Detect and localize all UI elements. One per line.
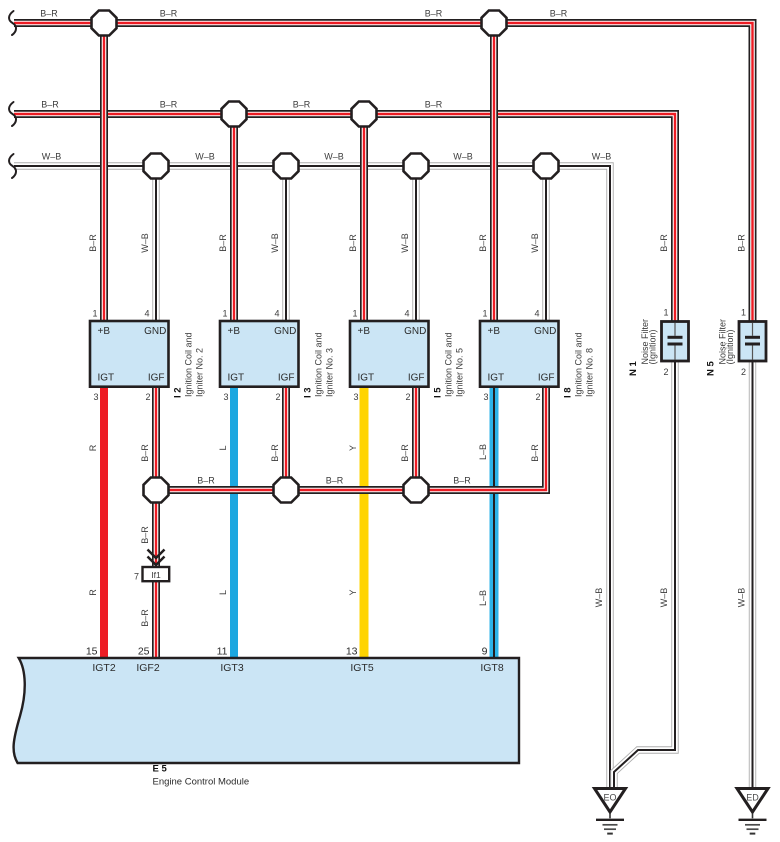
svg-text:W–B: W–B [592,152,612,162]
svg-text:Igniter No. 8: Igniter No. 8 [585,348,595,397]
svg-text:W–B: W–B [737,588,747,608]
wire L-B from I8 IGT to ECM pin 9 [490,387,499,658]
junction on second B-R bus above I3 [222,102,247,127]
svg-text:B–R: B–R [326,476,344,486]
svg-text:B–R: B–R [41,100,59,110]
svg-text:25: 25 [138,646,150,658]
noise filter N1 box [662,322,689,362]
wire B-R from junction to I8 +B [490,23,498,321]
wire B-R from I5 IGF to junction [412,387,420,490]
svg-text:1: 1 [741,308,746,318]
svg-text:W–B: W–B [453,152,473,162]
svg-text:Y: Y [348,445,358,451]
svg-text:+B: +B [488,326,501,337]
svg-text:B–R: B–R [40,9,58,19]
svg-text:IGT3: IGT3 [220,662,243,674]
junction on top B-R bus above I8 [482,11,507,36]
capacitor symbol inside N 5 [745,323,760,360]
svg-text:Igniter No. 5: Igniter No. 5 [455,348,465,397]
svg-text:IGT: IGT [228,373,245,384]
svg-text:9: 9 [482,646,488,658]
svg-text:2: 2 [663,367,668,377]
svg-text:+B: +B [228,326,241,337]
svg-text:I 8: I 8 [563,387,574,398]
svg-text:2: 2 [741,367,746,377]
svg-text:B–R: B–R [550,9,568,19]
wire bus W-B ground with corner down to ground EO [14,166,610,788]
svg-text:3: 3 [353,392,358,402]
ground EO triangle [595,789,626,813]
svg-text:3: 3 [223,392,228,402]
svg-text:IGF: IGF [278,373,295,384]
svg-text:E 5: E 5 [153,764,168,775]
svg-text:2: 2 [145,392,150,402]
junction on second B-R bus above I5 [352,102,377,127]
svg-text:IGT8: IGT8 [480,662,503,674]
svg-text:W–B: W–B [195,152,215,162]
svg-text:W–B: W–B [324,152,344,162]
svg-text:+B: +B [98,326,111,337]
svg-text:W–B: W–B [270,233,280,253]
svg-text:Y: Y [348,589,358,595]
svg-text:3: 3 [483,392,488,402]
wire B-R from junction to I2 +B [100,23,108,321]
svg-text:IGT5: IGT5 [350,662,373,674]
wire W-B from junction to I5 GND [412,166,419,321]
svg-text:GND: GND [534,326,556,337]
ignition coil and igniter I5 box [350,321,429,387]
svg-text:(Ignition): (Ignition) [648,329,658,364]
svg-text:L–B: L–B [478,444,488,460]
svg-text:If1: If1 [151,570,161,580]
svg-text:2: 2 [535,392,540,402]
svg-text:13: 13 [346,646,358,658]
torn end of top B-R bus [9,11,16,35]
svg-text:B–R: B–R [270,444,280,462]
svg-text:1: 1 [663,308,668,318]
svg-text:B–R: B–R [140,609,150,627]
capacitor symbol inside N 1 [668,323,683,360]
wire B-R from I3 IGF to junction [282,387,290,490]
svg-text:I 2: I 2 [173,387,184,398]
ignition coil and igniter I8 box [480,321,559,387]
svg-text:B–R: B–R [453,476,471,486]
svg-text:W–B: W–B [42,152,62,162]
svg-text:Ignition Coil and: Ignition Coil and [444,332,454,397]
svg-text:EO: EO [603,793,616,803]
svg-text:B–R: B–R [160,9,178,19]
svg-text:IGF: IGF [408,373,425,384]
wire W-B from junction to I8 GND [542,166,549,321]
junction on top B-R bus above I2 [92,11,117,36]
svg-text:I 5: I 5 [433,387,444,398]
wire L from I3 IGT to ECM pin 11 [230,387,238,658]
svg-text:Igniter No. 3: Igniter No. 3 [325,348,335,397]
svg-text:B–R: B–R [160,100,178,110]
ground EO earth symbol [596,814,624,834]
svg-text:W–B: W–B [140,233,150,253]
svg-text:L: L [218,590,228,595]
svg-text:W–B: W–B [594,588,604,608]
svg-text:4: 4 [144,309,149,319]
svg-text:ED: ED [746,793,759,803]
svg-text:N 1: N 1 [628,361,639,377]
wire B-R from I2 IGF through junction and If1 to ECM pin 25 [152,387,160,658]
wire W-B from junction to I3 GND [282,166,289,321]
svg-text:2: 2 [405,392,410,402]
svg-text:B–R: B–R [140,444,150,462]
svg-text:IGT: IGT [488,373,505,384]
svg-text:2: 2 [275,392,280,402]
svg-text:1: 1 [92,309,97,319]
svg-text:GND: GND [274,326,296,337]
svg-text:B–R: B–R [425,100,443,110]
svg-text:Engine Control Module: Engine Control Module [153,777,250,788]
ignition coil and igniter I3 box [220,321,299,387]
wire bus B-R top (battery feed 1) with corner down to N5 [14,23,753,321]
svg-text:B–R: B–R [737,234,747,252]
svg-text:1: 1 [352,309,357,319]
wire B-R from junction to I5 +B [360,114,368,321]
svg-text:4: 4 [534,309,539,319]
svg-text:1: 1 [222,309,227,319]
svg-text:7: 7 [134,572,139,582]
svg-text:R: R [88,589,98,596]
svg-text:GND: GND [404,326,426,337]
junction on W-B bus above I8 GND [534,154,559,179]
wire W-B from N1 pin 2 to ground EO [614,361,675,788]
svg-text:L: L [218,445,228,450]
noise filter N5 box [739,322,766,362]
torn end of W-B bus [9,154,16,178]
svg-text:B–R: B–R [348,234,358,252]
svg-text:R: R [88,444,98,451]
svg-text:B–R: B–R [218,234,228,252]
wire bus B-R IGF tie with corner up to I8 IGF [156,387,546,490]
svg-text:B–R: B–R [88,234,98,252]
svg-text:W–B: W–B [400,233,410,253]
svg-text:GND: GND [144,326,166,337]
svg-text:Ignition Coil and: Ignition Coil and [314,332,324,397]
svg-text:+B: +B [358,326,371,337]
wire Y from I5 IGT to ECM pin 13 [360,387,369,658]
svg-text:IGT: IGT [358,373,375,384]
svg-text:4: 4 [274,309,279,319]
wire bus B-R second (battery feed 2) with corner down to N1 [14,114,675,321]
wire W-B from N5 pin 2 to ground ED [749,361,756,788]
junction on IGF tie bus at IGF2 column [144,478,169,503]
svg-text:W–B: W–B [530,233,540,253]
torn end of second B-R bus [9,102,16,126]
svg-text:3: 3 [93,392,98,402]
svg-text:B–R: B–R [425,9,443,19]
svg-text:Ignition Coil and: Ignition Coil and [574,332,584,397]
svg-text:Igniter No. 2: Igniter No. 2 [195,348,205,397]
wire R from I2 IGT to ECM pin 15 [100,387,108,658]
svg-text:11: 11 [217,646,228,658]
svg-text:B–R: B–R [659,234,669,252]
ignition coil and igniter I2 box [90,321,169,387]
connector arrows above If1 [148,550,165,566]
junction on IGF tie bus at IGF3 column [274,478,299,503]
ground ED triangle [737,789,768,813]
junction on W-B bus above I5 GND [404,154,429,179]
svg-text:B–R: B–R [293,100,311,110]
svg-text:IGF: IGF [148,373,165,384]
svg-text:W–B: W–B [659,588,669,608]
engine control module E5 box [14,658,519,763]
svg-text:L–B: L–B [478,590,488,606]
svg-text:Ignition Coil and: Ignition Coil and [184,332,194,397]
svg-text:B–R: B–R [530,444,540,462]
connector If1 box [143,567,170,581]
svg-text:15: 15 [86,646,98,658]
svg-text:N 5: N 5 [706,361,717,377]
wire B-R from junction to I3 +B [230,114,238,321]
wire W-B from junction to I2 GND [152,166,159,321]
svg-text:B–R: B–R [140,526,150,544]
svg-text:IGF2: IGF2 [136,662,159,674]
svg-text:IGT2: IGT2 [92,662,115,674]
svg-text:I 3: I 3 [303,387,314,398]
junction on W-B bus above I2 GND [144,154,169,179]
svg-text:(Ignition): (Ignition) [725,329,735,364]
ground ED earth symbol [739,814,767,834]
junction on W-B bus above I3 GND [274,154,299,179]
svg-text:B–R: B–R [197,476,215,486]
svg-text:1: 1 [482,309,487,319]
svg-text:IGT: IGT [98,373,115,384]
svg-text:4: 4 [404,309,409,319]
svg-text:B–R: B–R [400,444,410,462]
svg-text:B–R: B–R [478,234,488,252]
svg-text:IGF: IGF [538,373,555,384]
junction on IGF tie bus at IGF5 column [404,478,429,503]
